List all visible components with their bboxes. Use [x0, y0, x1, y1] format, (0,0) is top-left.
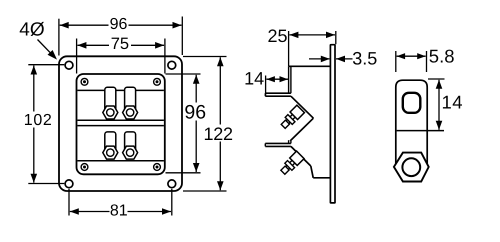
svg-text:81: 81 [110, 203, 128, 220]
svg-text:14: 14 [442, 92, 463, 113]
svg-text:96: 96 [184, 102, 206, 124]
svg-text:96: 96 [110, 16, 128, 33]
svg-text:122: 122 [204, 124, 234, 144]
svg-text:3.5: 3.5 [352, 48, 377, 68]
svg-text:5.8: 5.8 [429, 46, 455, 67]
svg-text:4Ø: 4Ø [19, 19, 45, 40]
svg-text:14: 14 [244, 69, 264, 89]
svg-text:102: 102 [24, 112, 52, 129]
svg-text:75: 75 [111, 35, 129, 53]
svg-text:25: 25 [267, 26, 287, 46]
